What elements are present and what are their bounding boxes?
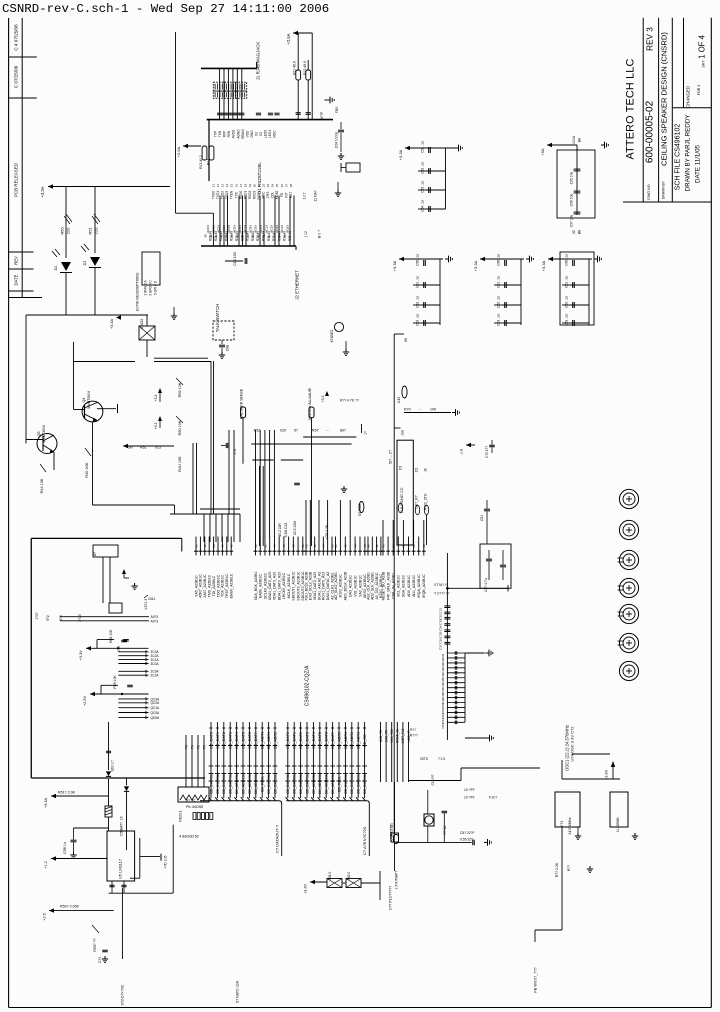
svg-text:40: 40 bbox=[304, 544, 308, 548]
wire bbox=[146, 340, 148, 357]
capacitor bankE1 bbox=[571, 284, 589, 286]
svg-text:26: 26 bbox=[280, 184, 284, 188]
tick marks mid bbox=[362, 765, 367, 767]
wire xtal rail bbox=[396, 841, 472, 843]
svg-text:(PA ? 22): (PA ? 22) bbox=[390, 823, 394, 837]
svg-text:CD_DAT0: CD_DAT0 bbox=[286, 732, 290, 749]
svg-text:MDC: MDC bbox=[273, 130, 277, 138]
wire bbox=[174, 505, 176, 514]
svg-text:1 RMS 2 A: 1 RMS 2 A bbox=[144, 280, 148, 296]
wire bus line bbox=[255, 722, 257, 798]
svg-text:45: 45 bbox=[230, 234, 234, 238]
capacitor bankE2 bbox=[571, 304, 589, 306]
pin cross bbox=[254, 745, 258, 747]
resistor network RN2 bbox=[213, 91, 224, 98]
tick marks mid bbox=[337, 765, 342, 767]
svg-text:C61 .1u: C61 .1u bbox=[416, 276, 420, 288]
svg-text:C43: C43 bbox=[397, 397, 401, 403]
svg-text:AC93: AC93 bbox=[254, 225, 258, 233]
resistor pack pads bbox=[193, 813, 196, 820]
svg-text:Q5: Q5 bbox=[37, 431, 41, 436]
svg-text:9.55 22T: 9.55 22T bbox=[460, 838, 473, 842]
svg-text:+3.3V: +3.3V bbox=[304, 884, 308, 894]
svg-text:DRAWN BY: DRAWN BY bbox=[662, 180, 666, 199]
svg-text:CD_ADR03L: CD_ADR03L bbox=[312, 774, 316, 795]
bus line 2 with wire entries bbox=[286, 800, 366, 802]
wire bus line bbox=[274, 722, 276, 798]
tick marks mid bbox=[241, 765, 246, 767]
ground bankD bbox=[526, 258, 530, 260]
wire bbox=[251, 443, 351, 445]
svg-text:12 MA?: 12 MA? bbox=[314, 190, 318, 201]
pin cross bbox=[324, 745, 328, 747]
connector J2 bracket bbox=[201, 245, 296, 247]
svg-text:0STD: 0STD bbox=[420, 757, 429, 761]
svg-text:45.2 22R: 45.2 22R bbox=[278, 523, 282, 537]
svg-text:CD_DAT5: CD_DAT5 bbox=[241, 732, 245, 749]
wire bbox=[210, 361, 212, 514]
svg-text:RXTP: RXTP bbox=[320, 112, 324, 121]
capacitor C57 bbox=[574, 211, 581, 213]
svg-text:C?4: C?4 bbox=[98, 957, 102, 963]
ground mid right bbox=[465, 737, 486, 739]
wire stub bbox=[281, 459, 303, 461]
svg-text:44: 44 bbox=[212, 544, 216, 548]
svg-text:CD_DAT3: CD_DAT3 bbox=[229, 732, 233, 749]
tick marks mid bbox=[234, 765, 239, 767]
capacitor C21 on R11 bbox=[296, 112, 301, 114]
wire rail bbox=[86, 647, 149, 649]
svg-text:C62 .1u: C62 .1u bbox=[497, 296, 501, 308]
svg-text:46: 46 bbox=[221, 544, 225, 548]
svg-text:GND: GND bbox=[250, 130, 254, 138]
wire bbox=[447, 587, 508, 589]
svg-text:CD_DAT73L: CD_DAT73L bbox=[229, 774, 233, 794]
svg-text:AC53: AC53 bbox=[286, 225, 290, 233]
capacitor bankE3 bbox=[571, 322, 589, 324]
svg-text:AC23: AC23 bbox=[270, 225, 274, 233]
wire branch up bbox=[96, 640, 98, 649]
svg-text:TMS_A23B1C: TMS_A23B1C bbox=[208, 574, 212, 597]
svg-text:C41: C41 bbox=[441, 658, 445, 664]
crystal X2 box bbox=[610, 792, 628, 827]
wire bbox=[379, 871, 381, 900]
pin descriptions table bbox=[142, 252, 160, 285]
wire CPU pin bbox=[255, 537, 257, 556]
svg-text:SDA_A23B1C: SDA_A23B1C bbox=[402, 574, 406, 597]
svg-text:42: 42 bbox=[263, 544, 267, 548]
svg-text:R? 4A: R? 4A bbox=[443, 825, 447, 835]
ground R70 bbox=[452, 412, 456, 414]
wire bus line bbox=[338, 722, 340, 798]
capacitor bankC0 bbox=[423, 260, 425, 266]
wire CPU pin bbox=[367, 537, 369, 556]
wire J1 pin 5 bbox=[236, 68, 238, 119]
svg-text:22: 22 bbox=[262, 184, 266, 188]
wire bbox=[73, 342, 75, 410]
tick marks mid bbox=[285, 765, 290, 767]
tick marks mid bbox=[260, 765, 265, 767]
wire CPU pin bbox=[309, 537, 311, 556]
capacitor C05 bbox=[489, 444, 495, 446]
wire bbox=[561, 760, 563, 779]
wire bus line bbox=[357, 722, 359, 798]
tick marks mid bbox=[228, 765, 233, 767]
wire CPU pin bbox=[423, 537, 425, 556]
wire bbox=[192, 443, 194, 514]
wire stub bbox=[118, 716, 148, 718]
wire branch up bbox=[100, 685, 102, 694]
wire CPU pin bbox=[314, 537, 316, 556]
wire CPU pin bbox=[283, 537, 285, 556]
wire bus line bbox=[344, 722, 346, 798]
svg-text:CHANGED: CHANGED bbox=[686, 86, 691, 108]
svg-text:IRQB_A23B1C: IRQB_A23B1C bbox=[422, 574, 426, 598]
wire CPU pin bbox=[199, 537, 201, 556]
wire CPU pin bbox=[221, 537, 223, 556]
svg-text:Y C??? ??: Y C??? ?? bbox=[434, 592, 450, 596]
svg-text:C9B 1u: C9B 1u bbox=[63, 842, 67, 854]
svg-text:+?D 2.2K: +?D 2.2K bbox=[325, 524, 329, 539]
tick marks mid bbox=[349, 765, 354, 767]
svg-text:1 OF 4: 1 OF 4 bbox=[698, 34, 707, 58]
svg-text:AD1_A23B1C: AD1_A23B1C bbox=[412, 575, 416, 597]
capacitor C52 bbox=[427, 170, 446, 172]
wire bbox=[60, 616, 149, 618]
op-amp pin tag 1 bbox=[398, 503, 402, 513]
wire bbox=[65, 187, 67, 259]
ferrite bead box FB1 bbox=[109, 603, 122, 613]
svg-text:+3.3: +3.3 bbox=[321, 396, 325, 403]
svg-text:TALK SWITCH: TALK SWITCH bbox=[215, 304, 220, 333]
capacitor C53 bbox=[427, 189, 446, 191]
tick marks mid bbox=[266, 765, 271, 767]
power +3.3 arrow small bbox=[325, 391, 329, 396]
svg-text:···: ··· bbox=[326, 429, 330, 433]
svg-text:42: 42 bbox=[203, 544, 207, 548]
wire bbox=[74, 361, 136, 363]
wire bus line bbox=[242, 722, 244, 798]
connector J2 label bbox=[295, 246, 297, 250]
wire bbox=[576, 145, 578, 215]
svg-text:AC63: AC63 bbox=[238, 225, 242, 233]
oscillator sub box bbox=[93, 545, 118, 557]
wire stub bbox=[118, 651, 148, 653]
svg-text:RXD3: RXD3 bbox=[252, 191, 256, 200]
capacitor row on PHY pins bbox=[217, 112, 222, 114]
svg-text:RXD2: RXD2 bbox=[248, 191, 252, 200]
svg-text:C32: C32 bbox=[439, 614, 443, 620]
svg-text:TXP: TXP bbox=[214, 131, 218, 137]
svg-text:R??: R?? bbox=[410, 728, 416, 732]
svg-text:R???: R??? bbox=[410, 734, 418, 738]
wire CPU pin bbox=[349, 537, 351, 556]
capacitor C22p bbox=[294, 482, 300, 484]
svg-text:C24 1000p: C24 1000p bbox=[335, 132, 339, 149]
svg-text:? 2.5: ? 2.5 bbox=[438, 757, 445, 761]
svg-text:CD_DAT33L: CD_DAT33L bbox=[363, 774, 367, 794]
svg-text:+1.2: +1.2 bbox=[44, 861, 48, 869]
svg-text:···: ··· bbox=[418, 408, 422, 412]
svg-text:+2.5: +2.5 bbox=[43, 913, 47, 921]
wire bus line bbox=[325, 722, 327, 798]
svg-text:CD_ADR0: CD_ADR0 bbox=[261, 732, 265, 750]
pin cross bbox=[209, 745, 213, 747]
pin cross bbox=[305, 745, 309, 747]
power +3.3A arrow bankC bbox=[399, 257, 404, 261]
wire J1 pin 4 bbox=[232, 68, 234, 119]
fiducial circle F5 bbox=[619, 604, 638, 623]
svg-text:SS EBE: SS EBE bbox=[358, 503, 362, 516]
svg-text:45: 45 bbox=[283, 234, 287, 238]
svg-text:J2 ETHERNET: J2 ETHERNET bbox=[295, 270, 300, 300]
svg-text:XA5_A23B1C: XA5_A23B1C bbox=[194, 575, 198, 597]
svg-text:AC03: AC03 bbox=[206, 225, 210, 233]
wire Q4 collector bbox=[97, 408, 116, 410]
svg-text:AC53: AC53 bbox=[233, 225, 237, 233]
terminal T regulator bbox=[160, 854, 162, 861]
svg-text:11.2896M: 11.2896M bbox=[616, 817, 620, 832]
svg-text:XTAL_IN_A23B1: XTAL_IN_A23B1 bbox=[392, 573, 396, 599]
svg-text:AC03: AC03 bbox=[259, 225, 263, 233]
capacitor C24 bbox=[338, 129, 344, 131]
tick marks mid bbox=[311, 765, 316, 767]
svg-text:15: 15 bbox=[230, 184, 234, 188]
ground cap bank A bbox=[455, 147, 459, 149]
wire CPU pin bbox=[226, 537, 228, 556]
svg-text:CD_ADR0: CD_ADR0 bbox=[337, 732, 341, 750]
svg-text:AC43: AC43 bbox=[280, 225, 284, 233]
svg-text:AD_SLK2_A23B1: AD_SLK2_A23B1 bbox=[334, 572, 338, 600]
pin cross bbox=[350, 745, 354, 747]
svg-text:C53 .1u: C53 .1u bbox=[421, 181, 425, 193]
svg-text:24.576MHz: 24.576MHz bbox=[568, 817, 572, 835]
capacitor C51 bbox=[428, 147, 430, 153]
wire CPU pin bbox=[213, 537, 215, 556]
svg-text:JU8: JU8 bbox=[401, 430, 405, 436]
capacitor bankD3 bbox=[503, 322, 521, 324]
svg-text:SDOUT2_A23B1C: SDOUT2_A23B1C bbox=[296, 571, 300, 601]
svg-text:TDO_A23B1C: TDO_A23B1C bbox=[216, 574, 220, 597]
wire bbox=[405, 147, 455, 149]
svg-text:C 07/25/06: C 07/25/06 bbox=[14, 65, 19, 88]
wire bus line bbox=[223, 722, 225, 798]
wire CPU pin bbox=[288, 537, 290, 556]
wire bbox=[170, 513, 240, 515]
ground bbox=[134, 583, 136, 586]
wire CPU pin bbox=[264, 537, 266, 556]
svg-text:DRAWN BY PARJL REDDY: DRAWN BY PARJL REDDY bbox=[685, 115, 692, 192]
svg-text:SCH FILE CS496102: SCH FILE CS496102 bbox=[675, 124, 682, 191]
svg-text:46: 46 bbox=[235, 234, 239, 238]
power +2.5 arrow left resistors bbox=[183, 144, 188, 148]
pin cross bbox=[286, 745, 290, 747]
svg-text:RXD5_JA: RXD5_JA bbox=[396, 728, 400, 743]
wire CPU pin bbox=[273, 537, 275, 556]
svg-text:C34: C34 bbox=[439, 625, 443, 631]
svg-text:49: 49 bbox=[251, 234, 255, 238]
border frame bottom bbox=[9, 1007, 712, 1009]
wire bbox=[65, 273, 67, 316]
wire CPU pin bbox=[402, 537, 404, 556]
svg-text:+3.3A: +3.3A bbox=[392, 260, 397, 271]
svg-text:R59 12K: R59 12K bbox=[178, 382, 182, 397]
svg-text:C61 .1u: C61 .1u bbox=[565, 276, 569, 288]
svg-text:C35: C35 bbox=[439, 632, 443, 638]
svg-text:44: 44 bbox=[273, 544, 277, 548]
capacitor column on rail bbox=[444, 605, 450, 607]
svg-text:C60 .1u: C60 .1u bbox=[497, 254, 501, 266]
title block changed cell divider bbox=[683, 18, 685, 108]
svg-text:QC0A: QC0A bbox=[151, 711, 161, 715]
wire bbox=[94, 268, 96, 316]
svg-text:U1 KSZ8721BL: U1 KSZ8721BL bbox=[257, 162, 262, 194]
svg-text:MCLK_A23B1C: MCLK_A23B1C bbox=[287, 573, 291, 598]
svg-text:R4U 10K: R4U 10K bbox=[178, 456, 182, 472]
svg-text:INT: INT bbox=[284, 192, 288, 197]
svg-text:COL: COL bbox=[271, 192, 275, 199]
wire stub bbox=[118, 712, 148, 714]
wire bbox=[25, 315, 27, 444]
svg-text:L5?1 3: L5?1 3 bbox=[144, 599, 148, 610]
wire CPU pin bbox=[217, 537, 219, 556]
component box small bbox=[346, 163, 360, 172]
svg-text:AC13: AC13 bbox=[211, 225, 215, 233]
pin cross bbox=[222, 745, 226, 747]
IC U2 DSP top edge bbox=[31, 537, 182, 539]
power +3.3V arrow bottom bbox=[310, 880, 315, 884]
svg-text:C57 10u: C57 10u bbox=[570, 215, 574, 228]
wire stub bbox=[118, 655, 148, 657]
svg-text:C63 .1u: C63 .1u bbox=[565, 314, 569, 326]
svg-text:Pb 44O55: Pb 44O55 bbox=[186, 805, 203, 809]
svg-text:CD_DAT63L: CD_DAT63L bbox=[222, 774, 226, 794]
svg-text:CD_DAT53L: CD_DAT53L bbox=[216, 774, 220, 794]
wire bbox=[293, 32, 312, 34]
svg-text:DATE: DATE bbox=[14, 274, 19, 285]
wire CPU pin bbox=[278, 537, 280, 556]
svg-text:C63 .1u: C63 .1u bbox=[497, 314, 501, 326]
wire bbox=[228, 430, 230, 514]
pin cross bbox=[241, 745, 245, 747]
svg-text:P1: P1 bbox=[190, 745, 194, 749]
svg-text:+?D 1u5: +?D 1u5 bbox=[164, 855, 168, 868]
wire bbox=[394, 333, 404, 335]
capacitor bank B box bbox=[557, 150, 595, 218]
svg-text:C45: C45 bbox=[441, 678, 445, 684]
svg-text:TDI_A23B1C: TDI_A23B1C bbox=[212, 575, 216, 596]
svg-text:+3.3A: +3.3A bbox=[110, 319, 114, 329]
svg-text:+3.3A: +3.3A bbox=[44, 798, 48, 808]
svg-text:U5 LM1117: U5 LM1117 bbox=[118, 858, 123, 879]
capacitor on rail bbox=[127, 684, 133, 686]
tick marks mid bbox=[221, 765, 226, 767]
svg-text:CSNRD-rev-C.sch-1 - Wed Sep 27: CSNRD-rev-C.sch-1 - Wed Sep 27 14:11:00 … bbox=[2, 2, 329, 16]
wire corner to PHY bbox=[176, 212, 214, 214]
power +3.3 hook bbox=[122, 569, 126, 574]
svg-text:UA0_TX: UA0_TX bbox=[379, 729, 383, 742]
svg-text:C15 100: C15 100 bbox=[233, 252, 237, 266]
capacitor C55 bbox=[574, 168, 581, 170]
wire bbox=[562, 778, 620, 780]
svg-text:REV: REV bbox=[14, 256, 19, 265]
wire bundle cluster2 up bbox=[255, 430, 257, 537]
svg-text:C48: C48 bbox=[441, 693, 445, 699]
capacitor C48 bbox=[121, 884, 126, 886]
svg-text:CD_DAT2: CD_DAT2 bbox=[222, 732, 226, 749]
svg-text:AC43: AC43 bbox=[227, 225, 231, 233]
wire stub bbox=[118, 702, 148, 704]
svg-text:A5R7_A23B1C: A5R7_A23B1C bbox=[199, 574, 203, 598]
svg-text:B8: B8 bbox=[578, 230, 582, 234]
svg-text:FB3: FB3 bbox=[335, 107, 339, 113]
capacitor C63b bbox=[500, 564, 506, 566]
svg-text:CD_DAT6: CD_DAT6 bbox=[325, 732, 329, 749]
svg-text:FOR 3: FOR 3 bbox=[697, 85, 701, 96]
svg-text:RST: RST bbox=[289, 192, 293, 198]
svg-text:SDOUT1_A23B1C: SDOUT1_A23B1C bbox=[292, 571, 296, 601]
svg-text:+3.3: +3.3 bbox=[154, 423, 158, 430]
bus line 1 with wire entries bbox=[200, 800, 279, 802]
svg-text:52? ... C?: 52? ... C? bbox=[389, 450, 393, 464]
revision table divider row4 bbox=[9, 268, 34, 270]
wire CPU pin bbox=[359, 537, 361, 556]
svg-text:F4P_DFLK_A23B: F4P_DFLK_A23B bbox=[386, 571, 390, 599]
wire CPU pin bbox=[269, 537, 271, 556]
svg-text:AD0_A23B1C: AD0_A23B1C bbox=[407, 575, 411, 597]
svg-text:R51: R51 bbox=[88, 227, 93, 235]
capacitor C61 bbox=[484, 508, 490, 510]
svg-text:46: 46 bbox=[412, 544, 416, 548]
svg-text:AC23: AC23 bbox=[217, 225, 221, 233]
capacitor C64 bbox=[102, 949, 108, 951]
svg-text:QD3A: QD3A bbox=[151, 716, 161, 720]
svg-text:CD_DAT03L: CD_DAT03L bbox=[344, 774, 348, 794]
revision table divider row1 bbox=[9, 56, 37, 58]
wire stub bbox=[118, 670, 148, 672]
svg-text:XT?A? Y: XT?A? Y bbox=[434, 583, 448, 587]
wire bbox=[213, 361, 215, 514]
svg-text:D3: D3 bbox=[83, 261, 87, 266]
pin cross bbox=[343, 745, 347, 747]
svg-text:46: 46 bbox=[282, 544, 286, 548]
svg-text:1?3?: 1?3? bbox=[35, 612, 39, 620]
wire CPU pin bbox=[380, 537, 382, 556]
wire CPU pin bbox=[397, 537, 399, 556]
svg-text:CD_DAT43L: CD_DAT43L bbox=[286, 774, 290, 794]
pin cross bbox=[292, 745, 296, 747]
wire bundle cluster4 up bbox=[382, 520, 384, 537]
title block line 2 bbox=[658, 18, 660, 202]
pin cross bbox=[337, 745, 341, 747]
wire bus line bbox=[312, 722, 314, 798]
pin tag bottom left bbox=[394, 835, 399, 844]
ground cap bank B bbox=[601, 144, 605, 146]
pin cross bbox=[330, 745, 334, 747]
svg-text:P3: P3 bbox=[202, 745, 206, 749]
wire bus line bbox=[287, 722, 289, 798]
svg-text:CD_ADR33L: CD_ADR33L bbox=[331, 774, 335, 795]
svg-text:-1.8: -1.8 bbox=[460, 449, 464, 455]
svg-text:Q4: Q4 bbox=[82, 397, 86, 402]
wire CPU pin bbox=[302, 537, 304, 556]
svg-text:5 GPI 6 D: 5 GPI 6 D bbox=[154, 280, 158, 295]
svg-text:R55? ??: R55? ?? bbox=[93, 938, 97, 951]
IC U1 ethernet PHY top edge bbox=[207, 119, 333, 121]
title block line 3 bbox=[671, 18, 673, 202]
capacitor on rail bbox=[123, 639, 129, 641]
svg-text:42: 42 bbox=[267, 234, 271, 238]
